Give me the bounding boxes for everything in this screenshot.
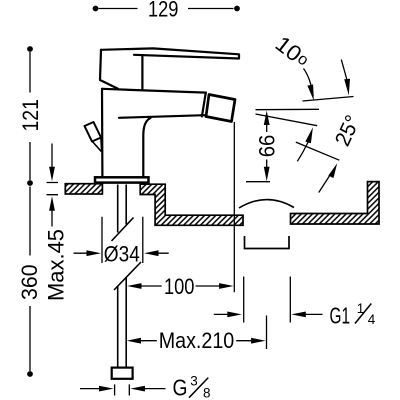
svg-text:100: 100 (164, 274, 195, 299)
dim O34 arrow shafts (74, 252, 169, 254)
dim 66 bottom tick (246, 181, 270, 183)
arrowheads (49, 167, 55, 182)
drain body outline (245, 236, 290, 249)
handle cap left edge (100, 50, 118, 89)
angle line 10deg (256, 114, 318, 126)
supply pipe lower segment (118, 278, 127, 368)
dim Max.210 right target line (266, 316, 268, 350)
dim Max.45 ticks (47, 183, 59, 195)
G3/8 connection nut (112, 368, 133, 379)
dim 129 end dots (93, 6, 99, 12)
drain extension lines (244, 277, 291, 323)
svg-text:Ø34: Ø34 (104, 241, 140, 266)
pipe break line upper (112, 218, 134, 242)
dim G3/8 ticks (115, 384, 130, 395)
svg-text:G: G (173, 374, 188, 400)
svg-text:129: 129 (148, 0, 179, 21)
arc arrow 10deg shaft (304, 69, 314, 97)
pipe break line lower (114, 262, 141, 290)
spout tip extension line (233, 122, 235, 292)
svg-text:Max.210: Max.210 (159, 328, 235, 353)
dim 360 line (29, 187, 31, 372)
dim G1-1/4 arrow shafts (214, 313, 323, 315)
svg-text:Max.45: Max.45 (44, 229, 69, 301)
svg-text:3: 3 (190, 374, 198, 389)
angle line horizontal (256, 108, 320, 110)
svg-text:8: 8 (203, 386, 211, 400)
arc arrow 25deg shaft (297, 139, 309, 161)
aerator end piece (tilted) (206, 95, 235, 122)
drain lever stem (92, 138, 101, 152)
faucet body top edge (102, 89, 206, 93)
dim 121 line (29, 52, 31, 180)
dim Max.45 arrow shafts (51, 144, 53, 227)
svg-text:G1: G1 (330, 302, 351, 328)
handle grip front edge (141, 55, 143, 89)
svg-text:121: 121 (18, 99, 43, 132)
drain pop-up lever knob (85, 122, 102, 142)
drain dome arc (239, 200, 294, 208)
dim 129 line (99, 8, 234, 10)
counter step and basin floor left (hatched) (140, 184, 243, 225)
spout underside line (119, 115, 205, 118)
svg-text:4: 4 (368, 312, 376, 327)
angle line upper (303, 97, 354, 102)
faucet handle lever (101, 48, 239, 58)
dim 66 shaft (266, 124, 268, 167)
dim O34 extension lines (102, 217, 143, 263)
dim G3/8 arrow shafts (80, 388, 166, 390)
faucet body left edge (101, 89, 104, 178)
dim 100 arrow shafts (141, 285, 221, 287)
angle line 25deg (296, 142, 340, 160)
straight arrow 25deg shaft (319, 173, 332, 193)
basin floor right and wall (hatched) (291, 182, 380, 224)
straight arrow 10deg shaft (341, 60, 347, 80)
dim Max.210 arrow shafts (140, 340, 251, 342)
body column front edge with fillet (143, 118, 150, 177)
spout end edge (202, 93, 206, 117)
dim 121/360 end dots (27, 46, 33, 52)
svg-text:360: 360 (17, 264, 42, 300)
supply pipe upper segment (118, 185, 127, 233)
label G1 1/4 (330, 301, 376, 328)
label G 3/8 (173, 374, 211, 400)
base flange (95, 177, 149, 182)
countertop left slab (hatched) (65, 184, 102, 194)
svg-text:66: 66 (254, 135, 279, 158)
